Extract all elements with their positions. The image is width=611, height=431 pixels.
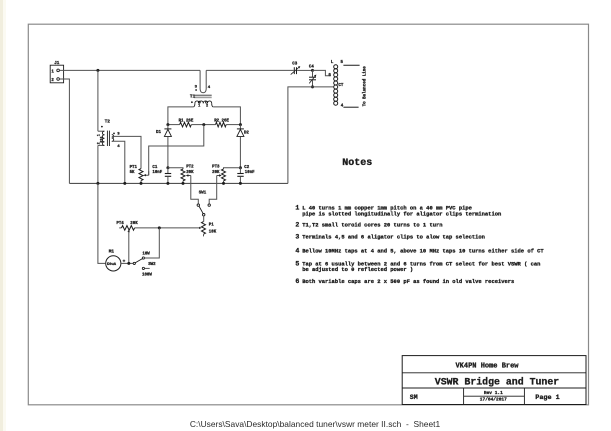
svg-text:Bellow 10MHz taps at 4 and 5,: Bellow 10MHz taps at 4 and 5, above 10 M…	[302, 247, 544, 254]
node bridge mid junction	[202, 123, 205, 126]
svg-text:2: 2	[206, 105, 208, 109]
node rail PT1	[140, 182, 143, 185]
wire T2 pin2 to ground rail	[97, 145, 99, 183]
note 5	[295, 260, 540, 273]
wire ground rail	[69, 182, 288, 184]
svg-text:pipe is slotted longitudinally: pipe is slotted longitudinally for aliga…	[302, 211, 501, 218]
svg-text:4: 4	[208, 86, 211, 90]
wire T1 secondary right to bridge	[213, 107, 240, 125]
wire C4 bottom to coil CT tap	[313, 86, 334, 88]
svg-text:20K: 20K	[186, 171, 194, 175]
svg-text:L: L	[331, 60, 334, 65]
wire PT2 wiper to SW1 left contact	[191, 176, 199, 204]
svg-text:CT: CT	[338, 84, 344, 88]
svg-text:P1: P1	[209, 223, 214, 227]
wire PT4 node to P1 wiper	[135, 227, 200, 229]
node rail T2 pin4	[123, 182, 126, 185]
meter M1 50uA	[106, 250, 126, 271]
capacitor C1 10nF	[152, 166, 171, 183]
svg-text:5K: 5K	[130, 171, 135, 175]
note 2	[295, 222, 442, 229]
svg-text:J1: J1	[54, 61, 60, 66]
wire SW2 10W contact to PT4 node	[145, 228, 160, 258]
svg-text:6: 6	[328, 74, 331, 78]
svg-text:Notes: Notes	[342, 158, 372, 169]
svg-text:C4: C4	[309, 66, 315, 70]
svg-text:be adjusted to 0 reflected pow: be adjusted to 0 reflected power )	[302, 266, 413, 273]
svg-text:Terminals 4,5 and 6 aligator c: Terminals 4,5 and 6 aligator clips to al…	[302, 234, 485, 241]
wire PT3 wiper to SW1 right contact	[209, 176, 217, 204]
potentiometer P1 10K	[199, 222, 217, 237]
title block	[402, 356, 586, 405]
svg-text:Both variable caps are 2 x 500: Both variable caps are 2 x 500 pF as fou…	[302, 278, 514, 285]
node rail PT3	[222, 182, 225, 185]
node rail C1	[166, 182, 169, 185]
svg-text:VK4PN Home Brew: VK4PN Home Brew	[455, 363, 519, 371]
resistor R2 26E	[204, 119, 241, 127]
switch SW1	[197, 191, 210, 216]
svg-text:Page 1: Page 1	[535, 394, 559, 402]
svg-text:1: 1	[198, 104, 200, 108]
potentiometer PT2 20K	[168, 166, 194, 184]
svg-text:4: 4	[295, 247, 299, 254]
inductor L with taps	[328, 60, 344, 108]
wire PT4 wiper to meter node	[128, 232, 130, 264]
note 3	[295, 234, 485, 241]
wire T1 pin4 to C3	[206, 69, 294, 71]
note 6	[295, 278, 514, 285]
svg-text:T1,T2 small toroid cores 20 tu: T1,T2 small toroid cores 20 turns to 1 t…	[302, 222, 442, 229]
svg-text:M1: M1	[109, 250, 115, 255]
svg-text:20K: 20K	[212, 171, 220, 175]
diode D2	[237, 125, 250, 168]
sheet caption	[0, 419, 611, 429]
svg-text:D2: D2	[244, 132, 250, 136]
svg-text:SW2: SW2	[148, 263, 156, 267]
svg-text:PT4: PT4	[116, 222, 124, 226]
svg-text:10nF: 10nF	[245, 171, 255, 175]
svg-text:1: 1	[51, 71, 54, 75]
node C4 top junction	[311, 69, 314, 72]
wire SW2 100W stub	[145, 267, 150, 269]
svg-text:1: 1	[97, 134, 101, 136]
svg-text:5: 5	[341, 61, 344, 65]
variable capacitor C4	[309, 66, 317, 87]
node rail C2	[239, 182, 242, 185]
node D2 C2 PT3 junction	[239, 166, 242, 169]
note 1	[295, 205, 501, 218]
wire M1 positive to SW2 common	[121, 262, 133, 264]
node bridge right junction	[239, 123, 242, 126]
wire SW1 common to P1	[203, 216, 205, 222]
node D1 C1 PT2 junction	[166, 166, 169, 169]
svg-text:10K: 10K	[209, 230, 217, 234]
wire J1 pin1 to T1 pin3	[59, 69, 200, 71]
svg-text:SM: SM	[410, 394, 418, 401]
svg-text:4: 4	[117, 145, 120, 149]
svg-text:010: 010	[100, 137, 104, 143]
connector J1	[50, 61, 63, 83]
wire bridge mid to PT1 wiper	[149, 125, 204, 176]
svg-text:1: 1	[295, 205, 299, 212]
potentiometer PT4 20K	[116, 222, 138, 232]
svg-text:10W: 10W	[142, 253, 150, 257]
svg-text:C1: C1	[152, 166, 157, 170]
svg-text:17/04/2017: 17/04/2017	[480, 397, 507, 403]
switch SW2	[133, 253, 156, 278]
transformer T1	[190, 70, 213, 108]
node rail T2	[96, 182, 99, 185]
svg-text:4: 4	[341, 104, 344, 108]
capacitor C2 10nF	[237, 166, 255, 183]
svg-text:C3: C3	[292, 63, 298, 67]
svg-text:R2 26E: R2 26E	[214, 119, 229, 123]
svg-text:3: 3	[295, 234, 299, 241]
diode D1	[156, 125, 171, 168]
svg-text:SW1: SW1	[199, 191, 207, 195]
node PT4 SW2 junction	[158, 226, 161, 229]
wire C4 node to coil tap 6	[313, 70, 331, 75]
svg-text:3: 3	[195, 86, 198, 90]
svg-text:T2: T2	[105, 118, 111, 124]
svg-text:20K: 20K	[130, 222, 138, 226]
svg-text:100W: 100W	[142, 274, 152, 278]
svg-text:PT3: PT3	[212, 166, 220, 170]
note 4	[295, 247, 544, 254]
node C4 bottom junction	[311, 85, 314, 88]
wire C4 bottom to ground riser	[288, 87, 313, 183]
wire coil tap 5 to balanced line	[343, 64, 359, 66]
junction node main line	[96, 69, 99, 72]
wire T2 pin3 to PT1 top	[112, 136, 141, 168]
wire T2 pin4 to ground rail	[112, 141, 125, 183]
svg-text:5: 5	[295, 260, 299, 267]
svg-text:PT2: PT2	[186, 166, 194, 170]
node bridge left junction	[166, 123, 169, 126]
transformer T2	[97, 118, 120, 149]
wire T1 secondary left to bridge	[168, 107, 193, 125]
node rail PT2	[182, 182, 185, 185]
svg-text:C2: C2	[244, 166, 249, 170]
svg-text:PT1: PT1	[130, 166, 138, 170]
potentiometer PT3 20K	[212, 166, 240, 184]
svg-text:6: 6	[295, 278, 299, 285]
wire J1 pin2 down to ground rail	[59, 79, 69, 183]
svg-text:To Balanced Line: To Balanced Line	[363, 66, 368, 107]
svg-text:10nF: 10nF	[152, 171, 162, 175]
potentiometer PT1 5K	[130, 166, 149, 183]
svg-text:Rev 1.1: Rev 1.1	[484, 390, 503, 396]
svg-text:50uA: 50uA	[107, 263, 117, 267]
svg-text:R1 26E: R1 26E	[179, 119, 194, 123]
svg-text:D1: D1	[156, 131, 162, 135]
variable capacitor C3	[291, 63, 301, 75]
node M1 PT4 wiper junction	[127, 262, 130, 265]
wire C3 to C4 node	[297, 69, 312, 71]
svg-text:VSWR Bridge and Tuner: VSWR Bridge and Tuner	[435, 377, 560, 388]
wire coil tap 4 to balanced line	[343, 106, 358, 108]
wire junction down to T2 pin1	[97, 70, 99, 131]
svg-text:2: 2	[295, 222, 299, 229]
wire ground rail to M1 negative	[98, 183, 106, 263]
resistor R1 26E	[168, 119, 204, 127]
svg-text:T1: T1	[190, 95, 196, 100]
